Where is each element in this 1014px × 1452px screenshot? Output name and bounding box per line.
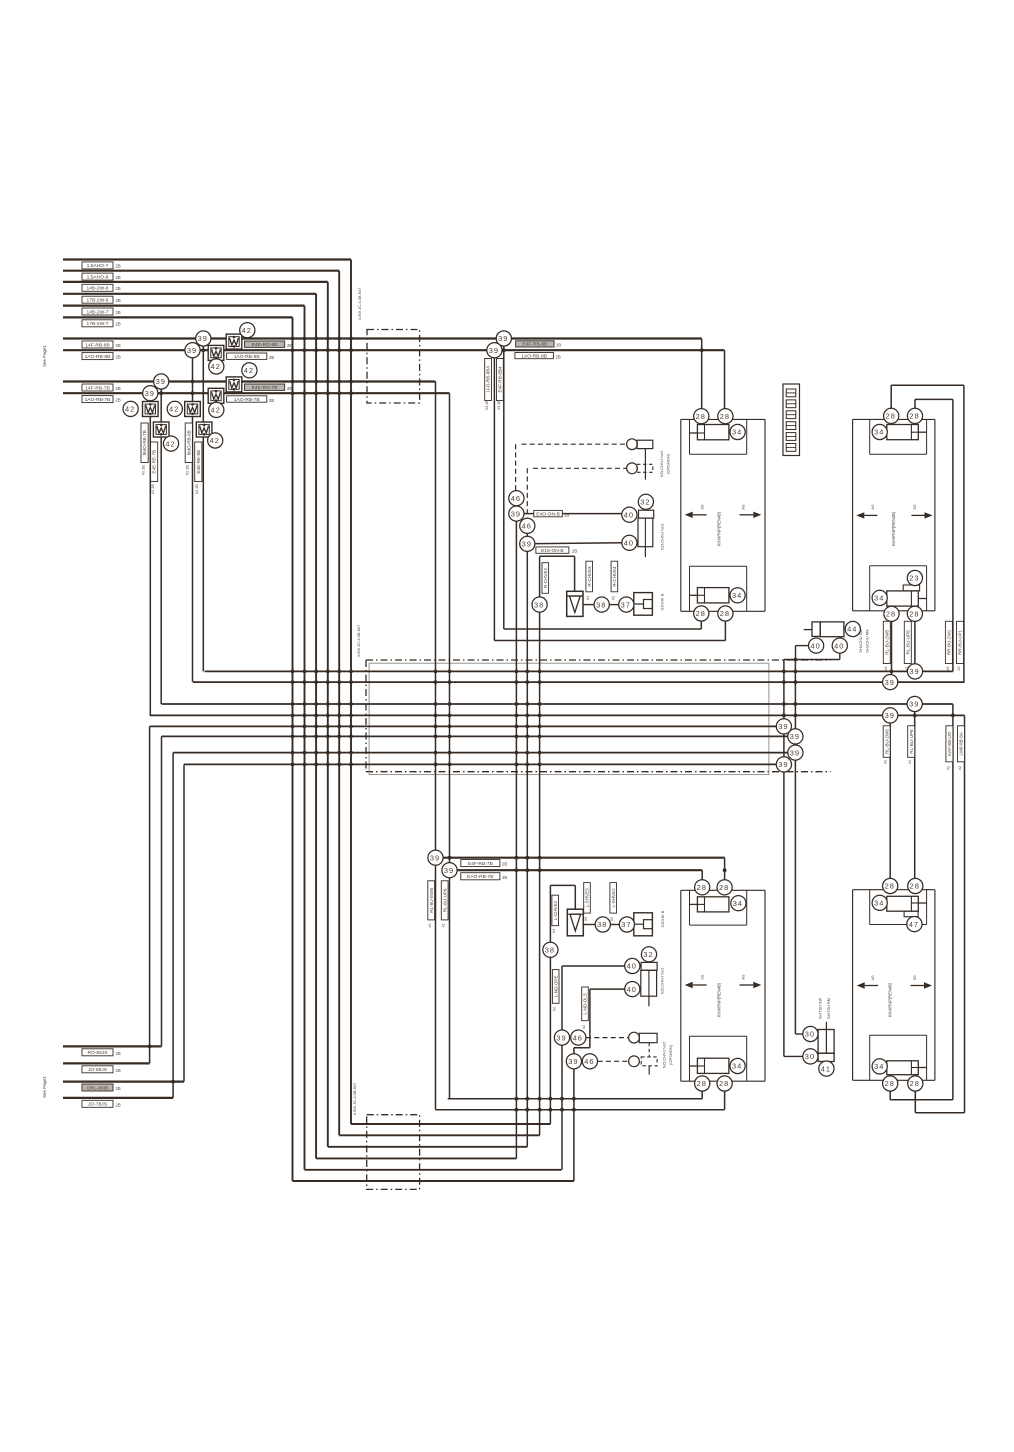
noise filter on W3 <box>226 377 242 392</box>
svg-text:39: 39 <box>568 1057 578 1066</box>
connector C-bot rect (LH top block) <box>697 588 729 603</box>
harness boundary box (top) <box>367 330 420 404</box>
bus line 4 <box>150 714 965 716</box>
svg-text:34: 34 <box>732 1062 742 1071</box>
title box rear conveyor <box>783 384 800 456</box>
svg-text:RO-88JS: RO-88JS <box>87 1050 108 1056</box>
svg-text:2B: 2B <box>116 1086 121 1091</box>
circle 42 a <box>240 323 255 338</box>
svg-text:RL-BU-2W8: RL-BU-2W8 <box>884 630 889 655</box>
svg-text:39: 39 <box>790 732 800 741</box>
harness boundary line (bus left) <box>365 660 367 772</box>
wire bundle-bottom b5 <box>305 1169 562 1171</box>
connector rect (LHbot bot) <box>697 1058 729 1073</box>
connector C-top half-div (RH) <box>911 431 918 433</box>
noise filter on W4 <box>208 388 224 403</box>
svg-text:32: 32 <box>640 498 650 507</box>
power window motor block (RH bottom) shell <box>852 890 854 1081</box>
svg-text:L-CHVE2: L-CHVE2 <box>553 900 558 920</box>
svg-text:#2 2B: #2 2B <box>195 484 199 494</box>
wire 40a jog <box>796 645 809 647</box>
svg-text:See Page1: See Page1 <box>42 345 47 367</box>
wire W1 corner drop to 28 <box>701 339 703 413</box>
circle 34 (RH bot conn) <box>872 590 887 605</box>
circle 42 g <box>163 436 178 451</box>
svg-text:34: 34 <box>874 899 884 908</box>
wire column doorA down <box>783 660 785 1057</box>
svg-text:2B: 2B <box>564 512 569 517</box>
wire knob-d lead jog <box>590 988 625 990</box>
wire key1 link <box>515 506 517 514</box>
connector C-bot stub <box>689 594 697 596</box>
key switch dashed lead upper <box>522 443 627 445</box>
label E4O-ON-B <box>534 510 563 517</box>
svg-text:39: 39 <box>885 678 895 687</box>
key cylinder contact d <box>629 1056 640 1067</box>
circle 34 (RHbot top conn) <box>872 895 887 910</box>
key cylinder center (bottom) <box>648 1043 650 1057</box>
wire label box L-CHVE2 <box>552 895 559 926</box>
svg-text:32: 32 <box>643 950 653 959</box>
connector C-bot half-div <box>697 594 704 596</box>
key cylinder tail (bottom) <box>648 1066 650 1075</box>
svg-text:E4O-ON-B: E4O-ON-B <box>536 511 560 517</box>
svg-text:RL-BU-UP8: RL-BU-UP8 <box>905 630 910 655</box>
wire buzzer to 38 <box>583 604 594 606</box>
wire L5 vertical riser to lower bundle <box>304 306 306 1170</box>
wire drop from W4 splice <box>149 393 151 715</box>
label JO-88JS <box>82 1066 113 1073</box>
svg-text:SG: SG <box>913 504 917 509</box>
wire bundle-bottom b6 <box>293 1180 574 1182</box>
svg-text:23: 23 <box>909 574 919 583</box>
shield rectangle around bus <box>369 663 769 774</box>
wire drop from W1 splice <box>202 339 204 672</box>
wire lock motor return lower <box>494 640 725 642</box>
circle 28 pin2 (LH top) <box>718 409 733 424</box>
svg-text:#2 2B: #2 2B <box>186 465 190 475</box>
wire drop W4 to lower splice <box>449 393 451 1098</box>
svg-text:#2 2B: #2 2B <box>151 484 155 494</box>
wire L3 14B-2W-8 horizontal <box>63 281 328 283</box>
label E4F-RB-7B (lower) <box>461 860 500 867</box>
wire stub 28 LHbot br <box>724 1084 726 1110</box>
svg-text:#3 2B: #3 2B <box>485 400 489 410</box>
svg-text:28: 28 <box>697 1079 707 1088</box>
splice 39 bkey2 <box>566 1054 581 1069</box>
svg-text:39: 39 <box>430 853 440 862</box>
wire label box L-SHVE3 <box>584 883 591 914</box>
svg-text:#2 2B: #2 2B <box>142 465 146 475</box>
svg-text:2B: 2B <box>116 398 121 403</box>
svg-text:E4F-RB-7B: E4F-RB-7B <box>468 861 493 867</box>
wire stub RHbot p3 <box>889 1084 891 1100</box>
connector stub (RHbot top) <box>918 902 926 904</box>
key switch dashed drop 2 <box>526 468 528 518</box>
knob switch tail <box>644 547 646 557</box>
svg-text:L-ND-OLS: L-ND-OLS <box>583 993 588 1014</box>
svg-text:L-ND-OPE: L-ND-OPE <box>553 975 558 997</box>
wire drop from W2 splice <box>192 350 194 682</box>
svg-text:8MO-RB-8B: 8MO-RB-8B <box>186 430 191 455</box>
noise filter on drop v161 <box>153 422 169 437</box>
connector rect (RHbot top) <box>887 896 919 911</box>
wire bundle-bottom b3 <box>328 1146 528 1148</box>
key cylinder switch 2 center line <box>644 449 646 480</box>
circle 47 pin <box>907 917 922 932</box>
connector rect (LHbot top) <box>697 897 729 912</box>
svg-text:28: 28 <box>719 883 729 892</box>
wire label box KAF-8B-UO <box>946 726 953 762</box>
circle 40 knob-a <box>622 507 637 522</box>
circle 34 (RH top conn) <box>872 424 887 439</box>
connector C-top stub (RH) <box>918 431 926 433</box>
circle 28 (RHbot top p2) <box>908 878 923 893</box>
bus line 7 <box>173 752 795 754</box>
circle 40 knob-c <box>625 958 640 973</box>
circle 46 key1 <box>509 491 524 506</box>
svg-text:47: 47 <box>909 920 919 929</box>
wire busD dropper <box>964 715 966 1112</box>
connector half-div (RHbot bot) <box>911 1067 918 1069</box>
splice 39 key2 <box>520 536 535 551</box>
wire lock knob sw 2 <box>527 543 621 544</box>
svg-text:40: 40 <box>834 641 844 650</box>
svg-text:28: 28 <box>909 412 919 421</box>
svg-text:2B: 2B <box>556 354 561 359</box>
wire stub RHbot p4 <box>914 1084 916 1113</box>
wire label box LW8-8B-8A <box>958 726 965 762</box>
circle 41 <box>819 1061 834 1076</box>
circle 28 pin3 (RH bot) <box>884 606 899 621</box>
wire W2 corner drop to 28 <box>724 350 726 412</box>
circle 38 bottom-right <box>595 917 610 932</box>
connector half-div (RHbot top) <box>911 902 918 904</box>
svg-text:AG: AG <box>742 974 746 979</box>
buzzer (bottom chime) <box>567 909 583 936</box>
svg-text:KHAIRNP(REN4B): KHAIRNP(REN4B) <box>716 511 721 546</box>
lock check switch <box>634 593 653 616</box>
connector stub (LHbot top) <box>689 903 697 905</box>
splice 39 bkey1 <box>554 1030 569 1045</box>
connector C-top divider <box>704 425 706 440</box>
circle 28 (LHbot bot p3) <box>695 1076 710 1091</box>
splice 39 on W1 right <box>496 331 511 346</box>
wire 40b stub <box>839 653 841 659</box>
splice 39 bus7 <box>788 745 803 760</box>
wire W5 corner drop <box>724 858 726 888</box>
circle 42 c <box>242 363 257 378</box>
circle 28 (LHbot bot p4) <box>717 1076 732 1091</box>
arrow down-travel (LH bot) <box>685 982 707 988</box>
arrow up-travel (LH top) <box>739 512 761 518</box>
label 1AO-RB-7B2 <box>227 396 267 403</box>
svg-text:SJCHK B: SJCHK B <box>660 593 665 610</box>
connector stub (LHbot bot) <box>689 1065 697 1067</box>
svg-text:#2: #2 <box>884 760 888 764</box>
circle 28 pin4 (LH bot) <box>718 606 733 621</box>
knob switch body <box>638 518 653 547</box>
key switch dashed lead lower <box>533 467 627 469</box>
wire label box L-ND-OPE <box>552 970 559 1004</box>
svg-text:#2: #2 <box>946 766 950 770</box>
svg-text:E4E-RO-8B: E4E-RO-8B <box>252 342 278 348</box>
circle 28 (RHbot top p1) <box>883 878 898 893</box>
wire W3 14F-RB-7B <box>63 380 436 382</box>
svg-text:2B: 2B <box>116 310 121 315</box>
wire label box RR-BU-2W1 <box>945 621 952 663</box>
svg-text:28: 28 <box>697 883 707 892</box>
circle 28 pin1 (LH top) <box>694 409 709 424</box>
label 17B-2W-7 <box>82 320 113 327</box>
circle 28 (RHbot bot p3) <box>883 1076 898 1091</box>
svg-text:#2: #2 <box>946 667 950 671</box>
circle 38 bottom-left <box>543 942 558 957</box>
svg-text:14F-RB-8B: 14F-RB-8B <box>85 342 109 348</box>
harness boundary box (bottom) <box>367 1115 420 1190</box>
bus line 7 left riser <box>172 753 174 1098</box>
bus line 6 left riser <box>161 736 163 1046</box>
svg-text:42: 42 <box>165 439 175 448</box>
svg-text:RR-BU-2W1: RR-BU-2W1 <box>947 629 952 655</box>
bus line 8 <box>184 763 784 765</box>
svg-text:1AO-RB-7B: 1AO-RB-7B <box>234 397 260 403</box>
svg-text:28: 28 <box>886 610 896 619</box>
svg-text:1AO-RB-8B: 1AO-RB-8B <box>234 354 260 360</box>
key switch dashed drop 1 <box>515 444 517 490</box>
svg-text:28: 28 <box>719 1079 729 1088</box>
bus line 8 left riser <box>183 764 185 1081</box>
svg-text:41: 41 <box>821 1064 831 1073</box>
circle 32 knob <box>638 494 653 509</box>
wire label box v449 <box>441 881 448 920</box>
svg-text:34: 34 <box>874 1062 884 1071</box>
wire column buzzer down <box>539 556 541 1135</box>
wire knob-c lead <box>562 965 625 967</box>
svg-text:#3 2B: #3 2B <box>497 400 501 410</box>
svg-text:39: 39 <box>790 748 800 757</box>
svg-text:42: 42 <box>242 326 252 335</box>
svg-text:EAO-RB-7B: EAO-RB-7B <box>467 874 493 880</box>
circle 46 bkey1 <box>571 1030 586 1045</box>
svg-text:40: 40 <box>624 539 634 548</box>
knob switch body (bottom) <box>641 970 657 996</box>
svg-text:RL-BU-2W6: RL-BU-2W6 <box>884 729 889 754</box>
wire label box RL-BU-UP6 <box>908 726 915 758</box>
wire lower return lower <box>436 1109 725 1111</box>
svg-text:2B: 2B <box>116 264 121 269</box>
svg-text:34: 34 <box>733 899 743 908</box>
wire RH loop 2 <box>914 399 916 416</box>
circle 42 d <box>209 402 224 417</box>
connector half-div (LHbot bot) <box>697 1065 704 1067</box>
svg-text:KHAIRNP(REN4B): KHAIRNP(REN4B) <box>891 511 896 546</box>
splice 39 on W2 right <box>487 343 502 358</box>
key cylinder switch 2 contact a <box>627 439 638 450</box>
svg-text:SG: SG <box>913 975 917 980</box>
wire key2 link <box>526 534 528 544</box>
wire bundle-bottom b2 <box>339 1134 539 1136</box>
svg-text:NZLCHNJ No1: NZLCHNJ No1 <box>660 523 665 550</box>
door switch cell <box>812 622 820 637</box>
svg-text:39: 39 <box>778 722 788 731</box>
title glyphs <box>786 389 796 451</box>
connector pin47 rect <box>904 911 918 917</box>
svg-text:R-CHVE2: R-CHVE2 <box>543 567 548 588</box>
splice 39 W5 <box>428 850 443 865</box>
svg-text:39: 39 <box>778 760 788 769</box>
wire L6 17B-2W-7 horizontal <box>63 316 293 318</box>
circle 28 (RHbot bot p4) <box>908 1076 923 1091</box>
connector C-top divider (RH) <box>910 425 912 440</box>
connector C-top stub <box>689 432 697 434</box>
key cylinder body solid (bottom) <box>639 1033 657 1042</box>
splice 39 on W2 left <box>185 343 200 358</box>
svg-text:KHAIRNP(REN4B): KHAIRNP(REN4B) <box>716 982 721 1017</box>
circle 37 bottom <box>619 917 634 932</box>
noise filter on W1 <box>226 334 242 349</box>
svg-text:28: 28 <box>885 1079 895 1088</box>
wire column key2 down <box>526 552 528 1147</box>
wire buzzer feed drop <box>574 556 576 591</box>
door switch body (bottom) <box>818 1030 834 1054</box>
svg-text:39: 39 <box>145 389 155 398</box>
svg-text:37: 37 <box>621 600 631 609</box>
bus line 3 <box>162 703 953 705</box>
svg-text:#2: #2 <box>957 667 961 671</box>
wire label box v161 <box>151 442 158 482</box>
harness boundary line (bus top) <box>366 659 831 661</box>
svg-text:2B: 2B <box>502 875 507 880</box>
bus line 6 <box>162 735 796 737</box>
svg-text:2B: 2B <box>572 549 577 554</box>
wire R3 ORL-80IB <box>63 1080 184 1082</box>
key cylinder switch 2 body solid <box>637 440 653 448</box>
label 1.5AHO-7 <box>82 262 113 269</box>
svg-text:44: 44 <box>847 625 857 634</box>
door switch lower cell (bottom) <box>818 1053 834 1061</box>
svg-text:(OPSHON): (OPSHON) <box>668 1044 673 1065</box>
knob switch connector <box>639 510 654 518</box>
wire buzzer to 38 (bottom) <box>583 924 595 926</box>
connector C-top half-div <box>697 432 704 434</box>
connector divider (RHbot top) <box>910 896 912 911</box>
svg-text:28: 28 <box>909 610 919 619</box>
svg-text:42: 42 <box>211 406 221 415</box>
wire stub 28 LHbot bl <box>701 1084 703 1099</box>
svg-text:E4F-RB-8B4: E4F-RB-8B4 <box>498 366 503 392</box>
svg-text:28: 28 <box>696 609 706 618</box>
svg-text:E4F-RB-8B: E4F-RB-8B <box>522 342 547 348</box>
knob switch tail (bottom) <box>648 996 650 1006</box>
wire L1 vertical riser to lower bundle <box>350 260 352 1125</box>
svg-text:#2: #2 <box>610 917 614 921</box>
arrow up-travel (RH top) <box>856 512 877 518</box>
connector C-bot rect (RH top block) <box>887 591 919 606</box>
wire splice drop v494 to lock motor <box>493 350 495 640</box>
wire L4 17B-2W-8 horizontal <box>63 293 316 295</box>
wire L3 vertical riser to lower bundle <box>327 282 329 1147</box>
svg-text:#4: #4 <box>584 917 588 921</box>
connector rect (RHbot bot) <box>887 1061 919 1075</box>
bus line 1 <box>205 670 953 672</box>
svg-text:28: 28 <box>885 882 895 891</box>
circle 34 (LH bot conn) <box>730 588 745 603</box>
noise filter on drop v150 <box>143 402 159 417</box>
svg-text:L-SHVE2: L-SHVE2 <box>611 888 616 908</box>
circle 30 a <box>803 1026 818 1041</box>
wire label box v203 <box>195 442 202 482</box>
circle 44 <box>845 621 860 636</box>
svg-text:39: 39 <box>498 334 508 343</box>
svg-text:E15-ON-B: E15-ON-B <box>541 548 564 554</box>
wire drop RH pin4 <box>914 614 916 672</box>
arrow down-travel (RH bot) <box>911 982 932 988</box>
wire L6 vertical riser to lower bundle <box>292 317 294 1181</box>
svg-text:39: 39 <box>444 866 454 875</box>
svg-text:2B: 2B <box>116 386 121 391</box>
svg-text:17B-2W-8: 17B-2W-8 <box>87 298 109 304</box>
harness boundary line (bus bottom) <box>366 771 831 773</box>
svg-text:KAF-8B-UO: KAF-8B-UO <box>947 731 952 756</box>
circle 42 h <box>123 401 138 416</box>
svg-text:AG: AG <box>871 975 875 980</box>
svg-text:2B: 2B <box>116 343 121 348</box>
wire 38-37 (bottom) <box>611 924 620 926</box>
wire 30b lead <box>784 1055 803 1057</box>
svg-text:46: 46 <box>584 1057 594 1066</box>
svg-text:2B: 2B <box>287 386 292 391</box>
svg-text:SJCHK B: SJCHK B <box>660 910 665 927</box>
circle 40 door-b <box>832 638 847 653</box>
svg-text:2B: 2B <box>116 1051 121 1056</box>
wire W1 14F-RB-8B <box>63 337 702 339</box>
noise filter on W2 <box>208 345 224 360</box>
svg-text:39: 39 <box>511 509 521 518</box>
label 14F-RB-8B <box>82 341 113 348</box>
svg-text:#2: #2 <box>908 760 912 764</box>
power window motor block (RH top) shell <box>852 419 854 610</box>
wire buzzer feed corner <box>540 555 575 557</box>
bus line 5 left riser <box>149 726 151 1063</box>
wire W2 1AO-RB-8B <box>63 349 725 351</box>
svg-text:2B: 2B <box>116 1102 121 1107</box>
svg-text:2B: 2B <box>116 286 121 291</box>
buzzer (lock chime) <box>567 591 583 616</box>
svg-text:R-CHVE3: R-CHVE3 <box>587 566 592 587</box>
label E15-ON-B <box>536 547 569 554</box>
wire label box RL-BU-UP8 <box>904 621 911 663</box>
circle 28 pin4 (RH bot) <box>907 606 922 621</box>
svg-text:L-SHVE3: L-SHVE3 <box>585 888 590 908</box>
wire W6 corner drop <box>701 870 703 887</box>
svg-text:28: 28 <box>886 412 896 421</box>
svg-text:34: 34 <box>732 428 742 437</box>
arrow up-travel (LH bot) <box>739 982 761 988</box>
wire R2 JO-88JS <box>63 1062 150 1064</box>
wire bundle-bottom b4 <box>316 1157 516 1159</box>
door switch center line <box>825 1022 827 1053</box>
power window motor block (LH bottom) shell <box>680 890 682 1081</box>
svg-text:39: 39 <box>909 700 919 709</box>
circle 42 b <box>209 359 224 374</box>
svg-text:#2: #2 <box>611 596 615 600</box>
svg-text:E4E-RE-8B: E4E-RE-8B <box>196 450 201 474</box>
label 17B-2W-8 <box>82 296 113 303</box>
svg-text:AG: AG <box>742 504 746 509</box>
door switch stub <box>804 629 812 631</box>
wire lower return upper <box>448 1098 703 1100</box>
